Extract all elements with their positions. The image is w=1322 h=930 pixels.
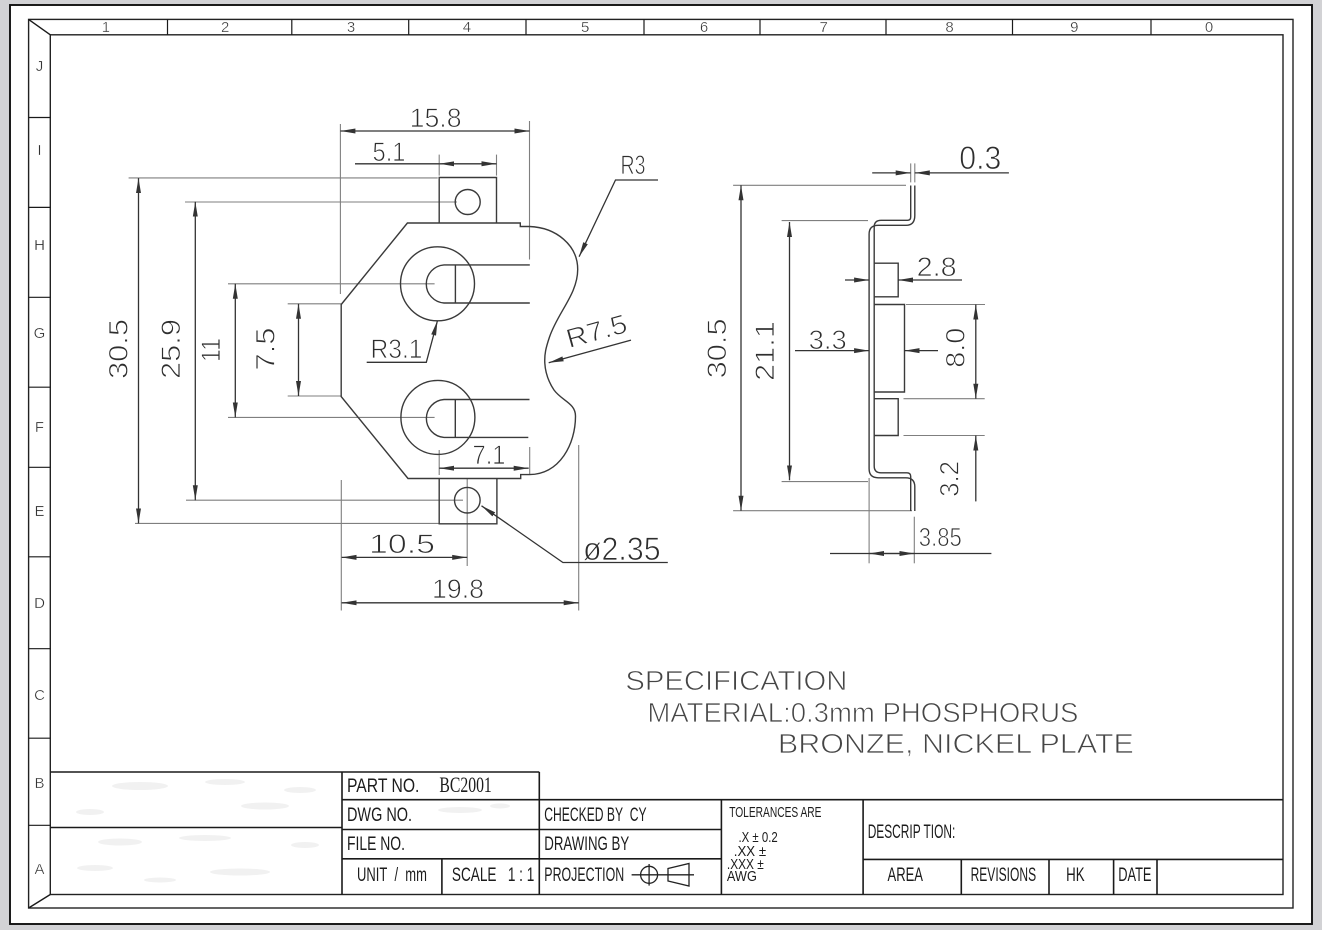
svg-text:5.1: 5.1 xyxy=(373,137,406,167)
svg-text:2.8: 2.8 xyxy=(917,252,957,282)
svg-text:CHECKED BY CY: CHECKED BY CY xyxy=(544,805,647,826)
svg-text:MATERIAL:0.3mm PHOSPHORUS: MATERIAL:0.3mm PHOSPHORUS xyxy=(647,697,1078,728)
svg-text:UNIT / mm: UNIT / mm xyxy=(357,865,427,886)
svg-text:DESCRIP TION:: DESCRIP TION: xyxy=(868,822,956,843)
svg-text:9: 9 xyxy=(1070,19,1078,36)
svg-text:BC2001: BC2001 xyxy=(439,772,491,797)
svg-text:A: A xyxy=(34,861,44,878)
svg-text:DWG NO.: DWG NO. xyxy=(347,805,412,826)
svg-text:2: 2 xyxy=(221,19,229,36)
svg-text:TOLERANCES ARE: TOLERANCES ARE xyxy=(729,804,821,821)
svg-text:D: D xyxy=(34,595,45,612)
svg-text:SCALE 1 : 1: SCALE 1 : 1 xyxy=(452,865,534,886)
svg-text:C: C xyxy=(34,687,45,704)
svg-text:5: 5 xyxy=(581,19,589,36)
svg-text:30.5: 30.5 xyxy=(104,319,134,379)
svg-text:8.0: 8.0 xyxy=(941,328,971,368)
svg-text:7.5: 7.5 xyxy=(251,328,281,371)
svg-text:E: E xyxy=(34,503,44,520)
svg-text:J: J xyxy=(36,58,44,75)
svg-text:10.5: 10.5 xyxy=(369,529,435,559)
svg-text:HK: HK xyxy=(1066,865,1085,886)
svg-text:30.5: 30.5 xyxy=(702,318,732,378)
svg-text:F: F xyxy=(35,419,44,436)
svg-text:15.8: 15.8 xyxy=(410,103,462,133)
svg-text:B: B xyxy=(34,775,44,792)
svg-text:3.3: 3.3 xyxy=(809,325,847,355)
svg-text:DRAWING BY: DRAWING BY xyxy=(544,834,629,855)
svg-text:3.85: 3.85 xyxy=(919,522,962,552)
svg-text:SPECIFICATION: SPECIFICATION xyxy=(625,665,847,696)
svg-text:21.1: 21.1 xyxy=(750,321,780,381)
svg-text:I: I xyxy=(37,142,41,159)
svg-text:4: 4 xyxy=(463,19,471,36)
svg-text:R3: R3 xyxy=(621,150,646,180)
svg-text:7.1: 7.1 xyxy=(473,440,506,470)
svg-text:REVISIONS: REVISIONS xyxy=(971,865,1037,886)
svg-text:3: 3 xyxy=(347,19,355,36)
svg-text:R3.1: R3.1 xyxy=(371,334,423,364)
svg-text:G: G xyxy=(34,325,46,342)
svg-text:25.9: 25.9 xyxy=(156,319,186,379)
svg-text:AWG: AWG xyxy=(727,868,757,885)
svg-text:19.8: 19.8 xyxy=(432,574,484,604)
svg-text:1: 1 xyxy=(102,19,110,36)
svg-text:0: 0 xyxy=(1205,19,1213,36)
svg-text:FILE NO.: FILE NO. xyxy=(347,834,405,855)
svg-text:AREA: AREA xyxy=(888,865,924,886)
svg-text:H: H xyxy=(34,237,45,254)
svg-text:PROJECTION: PROJECTION xyxy=(544,865,624,886)
svg-text:0.3: 0.3 xyxy=(959,140,1001,176)
svg-text:ø2.35: ø2.35 xyxy=(583,531,661,567)
svg-text:DATE: DATE xyxy=(1118,865,1151,886)
svg-text:11: 11 xyxy=(196,338,226,362)
svg-text:PART NO.: PART NO. xyxy=(347,776,419,797)
svg-text:3.2: 3.2 xyxy=(935,461,965,497)
svg-text:BRONZE, NICKEL PLATE: BRONZE, NICKEL PLATE xyxy=(778,728,1134,759)
svg-text:6: 6 xyxy=(700,19,708,36)
svg-text:8: 8 xyxy=(945,19,953,36)
svg-text:7: 7 xyxy=(820,19,828,36)
